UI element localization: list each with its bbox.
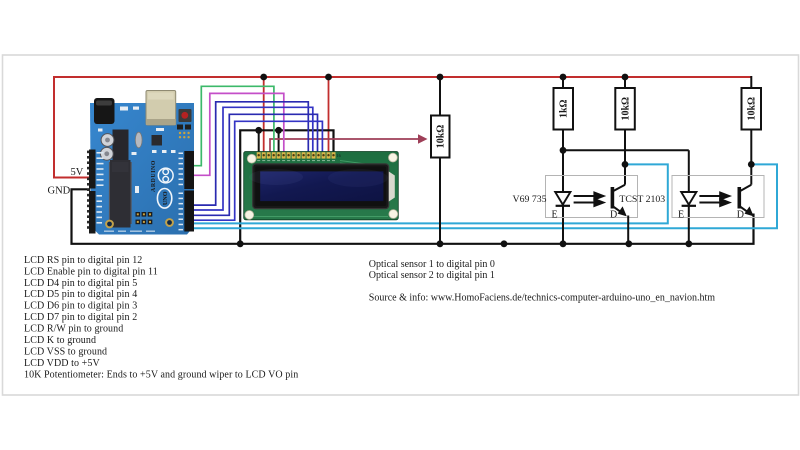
wire green LCD RS: [191, 86, 274, 165]
left power header: [89, 150, 96, 189]
wire R3 top: [624, 77, 626, 88]
svg-text:LCD D6 pin to digital pin 3: LCD D6 pin to digital pin 3: [24, 301, 137, 312]
silk traces: [250, 161, 389, 217]
mounting hole right: [166, 219, 173, 226]
svg-text:LCD D5 pin to digital pin 4: LCD D5 pin to digital pin 4: [24, 289, 137, 300]
svg-text:Optical sensor 1 to digital pi: Optical sensor 1 to digital pin 0: [369, 259, 495, 270]
right digital header lower: [184, 191, 194, 232]
wire cyan sensor2 to pin1: [191, 164, 778, 228]
voltage regulator: [113, 130, 129, 162]
svg-text:E: E: [552, 210, 558, 221]
svg-text:GND: GND: [48, 185, 71, 196]
svg-text:10kΩ: 10kΩ: [436, 125, 447, 149]
UNO oval logo: [157, 189, 171, 209]
svg-text:LCD K to ground: LCD K to ground: [24, 335, 96, 346]
pin pads: [257, 152, 336, 158]
arrowhead wiper: [418, 134, 428, 143]
junction dots ground bus: [237, 240, 692, 247]
wire blue D7: [191, 102, 309, 205]
wire LCD ground feed: [240, 130, 333, 244]
board PCB: [90, 103, 194, 235]
svg-text:16: 16: [337, 153, 341, 158]
svg-text:V69 735: V69 735: [513, 194, 547, 205]
reset button: [179, 109, 192, 122]
svg-text:Optical sensor 2 to digital pi: Optical sensor 2 to digital pin 1: [369, 270, 495, 281]
power jack: [94, 98, 115, 124]
electrolytic capacitor C2: [100, 147, 113, 160]
svg-text:LCD D7 pin to digital pin 2: LCD D7 pin to digital pin 2: [24, 312, 137, 323]
wire R4 top from red bus: [750, 76, 752, 88]
wire R2 bottom through LED1 to ground: [562, 130, 564, 244]
mounting hole left: [106, 221, 113, 228]
phototransistor Q2: [739, 185, 753, 217]
right tab: [389, 172, 395, 202]
svg-text:10kΩ: 10kΩ: [747, 97, 758, 121]
svg-text:10K Potentiometer: Ends to +5V: 10K Potentiometer: Ends to +5V and groun…: [24, 369, 298, 380]
junction dots red bus: [260, 74, 628, 81]
LED2: [681, 192, 696, 206]
junction dots LCD feed: [255, 127, 282, 134]
junction dots collector nodes: [622, 161, 629, 168]
silkscreen pin numbers row: [257, 160, 335, 161]
svg-text:LCD Enable pin to digital pin: LCD Enable pin to digital pin 11: [24, 266, 158, 277]
wire R4 bottom to collector node: [750, 130, 752, 185]
resistor R2 1k: [554, 88, 574, 130]
phototransistor Q1: [612, 185, 628, 244]
svg-text:1kΩ: 1kΩ: [559, 99, 570, 118]
wire black drop LCD pin5: [278, 130, 280, 153]
icsp 8u2 pins: [179, 132, 190, 139]
border frame: [3, 55, 799, 395]
wire black drop LCD pin1: [258, 130, 260, 153]
silkscreen smd bits: [98, 107, 176, 194]
ATmega328 DIP chip: [109, 160, 132, 228]
light arrows sensor1: [574, 193, 604, 206]
svg-text:E: E: [678, 210, 684, 221]
wire blue D5: [191, 114, 318, 215]
icsp header: [136, 212, 153, 224]
pin labels white dashes left: [97, 152, 104, 224]
svg-text:LCD VDD to +5V: LCD VDD to +5V: [24, 358, 100, 369]
Arduino Uno board: [87, 91, 194, 235]
right digital header upper: [184, 151, 194, 189]
8u2 chip: [152, 135, 163, 146]
junction dot LED feed: [560, 147, 567, 154]
wire maroon LCD VO to potentiometer wiper: [270, 139, 420, 153]
svg-text:D: D: [610, 210, 617, 221]
svg-text:LCD D4 pin to digital pin 5: LCD D4 pin to digital pin 5: [24, 278, 137, 289]
wire R2 top: [562, 77, 564, 88]
wire red drop to LCD pin15 LED+: [328, 77, 330, 153]
electrolytic capacitor C1: [101, 134, 114, 147]
svg-text:10kΩ: 10kΩ: [620, 97, 631, 121]
wire LED2 vertical: [688, 150, 690, 244]
wire GND black bus: [72, 189, 754, 244]
resistor R1 10k potentiometer: [431, 116, 450, 158]
svg-text:LCD RS pin to digital pin 12: LCD RS pin to digital pin 12: [24, 255, 142, 266]
wire 5V red bus: [54, 77, 752, 178]
arduino infinity logo: [158, 168, 173, 183]
LCD module: [244, 152, 399, 220]
LCD bezel: [253, 164, 389, 209]
svg-text:5V: 5V: [71, 167, 84, 178]
pin nubs left edge: [87, 151, 90, 229]
light arrows sensor2: [699, 193, 729, 206]
usb connector: [146, 91, 176, 126]
mounting holes: [247, 154, 256, 163]
resistor R3 10k: [615, 88, 635, 130]
bottom silk row: [104, 231, 155, 232]
crystal: [135, 132, 142, 148]
optocoupler sensor 2 box: [672, 176, 764, 218]
wire red drop to LCD pin2 VDD: [263, 77, 265, 153]
small parts top right: [177, 125, 183, 130]
svg-text:Source & info: www.HomoFaciens: Source & info: www.HomoFaciens.de/techni…: [369, 292, 716, 303]
left analog header: [89, 191, 96, 234]
wire magenta LCD E: [191, 93, 284, 175]
svg-text:UNO: UNO: [162, 191, 169, 205]
LCD PCB: [244, 152, 399, 220]
LCD screen: [260, 171, 383, 201]
svg-text:TCST 2103: TCST 2103: [619, 194, 665, 205]
notes right column: [369, 259, 716, 304]
resistor R4 10k: [742, 88, 762, 130]
svg-text:D: D: [737, 210, 744, 221]
svg-text:LCD VSS to ground: LCD VSS to ground: [24, 346, 107, 357]
notes left column: [24, 255, 298, 380]
LED1: [555, 192, 570, 206]
pin labels white dashes right: [179, 153, 184, 231]
wire LED feed line to sensor2: [563, 149, 689, 151]
wire pot bottom: [439, 158, 441, 244]
wire blue D6: [191, 107, 313, 210]
wire cyan sensor1 to pin0: [191, 164, 668, 223]
wire R3 bottom to collector node: [624, 130, 626, 185]
optocoupler sensor 1 box: [546, 176, 638, 218]
svg-text:LCD R/W pin to ground: LCD R/W pin to ground: [24, 324, 123, 335]
wire blue D4: [191, 121, 323, 220]
svg-text:ARDUINO: ARDUINO: [151, 160, 157, 192]
wire pot top: [439, 77, 441, 116]
